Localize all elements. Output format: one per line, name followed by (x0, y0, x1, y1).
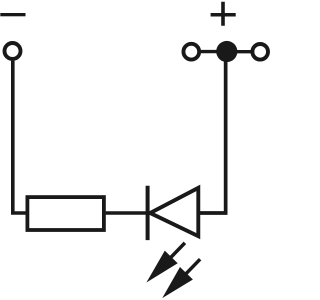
wire LED anode up to junction (197, 60, 226, 213)
LED D1 cathode bar (146, 186, 150, 240)
terminal 3 (open circle, right of junction) (252, 44, 268, 60)
plus polarity label (211, 2, 236, 26)
LED D1 triangle (anode) (150, 188, 198, 236)
terminal 2 (open circle, left of junction) (183, 44, 199, 60)
wire from terminal 1 down to resistor (13, 61, 26, 213)
terminal 1 (negative, open circle) (5, 43, 21, 59)
wire junction to right bus circle (234, 50, 253, 53)
minus polarity label (0, 13, 25, 16)
resistor R1 (27, 197, 104, 230)
wire resistor to LED cathode (106, 211, 146, 215)
LED light emission arrow 1 (140, 237, 191, 289)
LED light emission arrow 2 (156, 253, 207, 300)
junction node (filled circle, positive) (216, 41, 237, 62)
wire junction to left bus circle (199, 50, 219, 53)
